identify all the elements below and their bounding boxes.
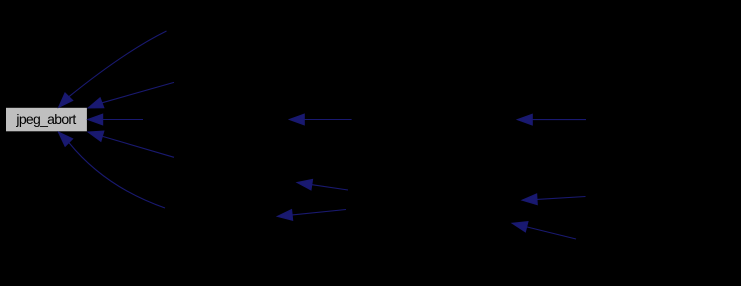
edge E6: bottom curved arrow into jpeg_abort (bottom) <box>58 132 165 208</box>
edge E4: straight arrow into jpeg_abort (lower right corner) <box>88 131 174 157</box>
edge E9: mid lower arrow slanting down-left <box>277 210 346 221</box>
edge E10: right lower arrow slanting down-left <box>522 194 586 205</box>
edge E3: horizontal arrow into jpeg_abort (right edge) <box>88 114 143 125</box>
edge E8: mid lower arrow slanting up-left <box>297 179 348 190</box>
edge E1: top curved arrow into jpeg_abort (top) <box>59 31 167 108</box>
edge E5: middle horizontal arrow (column C to column B) <box>289 114 351 125</box>
edge E11: right lower arrow slanting up-left <box>512 222 576 239</box>
edge E2: straight arrow into jpeg_abort (upper right corner) <box>88 82 174 108</box>
svg-text:jpeg_abort: jpeg_abort <box>15 111 76 127</box>
edge E7: right horizontal arrow (column D to column C) <box>517 114 586 125</box>
node jpeg_abort <box>6 108 87 132</box>
